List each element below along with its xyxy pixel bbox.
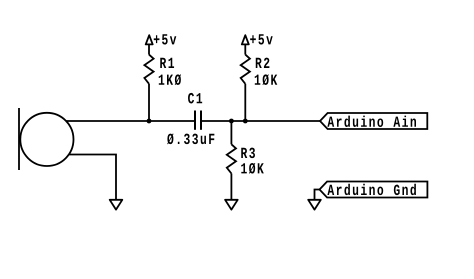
wire: mic output to capacitor C1 (main signal net) [66, 120, 195, 122]
resistor R3 [227, 144, 236, 173]
junction: R1 / main wire [147, 119, 152, 124]
ground (under R3) [225, 200, 238, 210]
label 10K (value of R2) [255, 74, 278, 85]
label C1 [188, 93, 202, 104]
node Arduino Gnd (flag) [320, 182, 428, 198]
wire: mic ground lead [69, 155, 116, 200]
wire: R2 bottom to main net [244, 84, 246, 121]
junction: R2 / main wire [243, 119, 248, 124]
label 10K (value of R3) [241, 163, 264, 174]
wire: R1 bottom to main net [148, 84, 150, 121]
label 0.33uF (value of C1) [167, 133, 214, 144]
microphone MIC1 [19, 108, 74, 170]
wire: +5v to R2 top [244, 44, 246, 54]
resistor R2 [241, 55, 250, 84]
ground (under microphone) [110, 200, 123, 210]
node Arduino Ain (flag) [320, 113, 427, 129]
label R1 [160, 58, 174, 68]
label 1K0 (value of R1) [159, 74, 181, 85]
label +5v (R1 supply) [154, 34, 177, 44]
label R3 [241, 148, 255, 159]
capacitor C1 [195, 111, 201, 130]
wire: capacitor C1 to Arduino Ain flag [201, 120, 320, 122]
wire: +5v to R1 top [148, 44, 150, 54]
wire: main net down to R3 top [230, 121, 232, 144]
label +5v (R2 supply) [250, 34, 273, 44]
label R2 [256, 58, 270, 68]
resistor R1 [144, 55, 153, 84]
wire: Gnd flag to ground symbol [315, 190, 320, 200]
power +5v symbol (above R2) [242, 35, 249, 44]
power +5v symbol (above R1) [146, 35, 153, 44]
wire: R3 bottom to ground [230, 174, 232, 200]
label Arduino Gnd [327, 184, 416, 195]
label Arduino Ain [327, 116, 416, 127]
ground (Arduino Gnd) [308, 200, 321, 210]
junction: R3 / main wire [229, 119, 234, 124]
